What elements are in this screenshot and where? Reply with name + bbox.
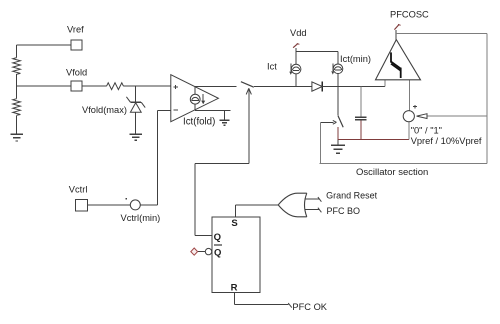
svg-text:PFC BO: PFC BO	[327, 206, 361, 216]
svg-text:Vref: Vref	[67, 25, 84, 35]
svg-text:R: R	[231, 283, 238, 294]
svg-text:Ict(min): Ict(min)	[340, 54, 371, 64]
svg-text:Vfold(max): Vfold(max)	[82, 105, 127, 115]
svg-text:PFCOSC: PFCOSC	[390, 9, 429, 19]
svg-text:Ict: Ict	[267, 62, 277, 72]
svg-text:Oscillator section: Oscillator section	[356, 167, 428, 178]
svg-text:Vctrl(min): Vctrl(min)	[121, 213, 161, 223]
svg-text:Ict(fold): Ict(fold)	[183, 117, 215, 128]
svg-text:Vpref / 10%Vpref: Vpref / 10%Vpref	[411, 136, 482, 146]
svg-text:Vctrl: Vctrl	[69, 184, 88, 194]
svg-text:"0" / "1": "0" / "1"	[411, 125, 442, 135]
svg-text:Vfold: Vfold	[66, 68, 87, 78]
svg-text:Q: Q	[214, 232, 221, 243]
svg-text:Q: Q	[214, 248, 221, 259]
svg-text:Vdd: Vdd	[290, 28, 307, 38]
svg-text:PFC OK: PFC OK	[292, 302, 327, 312]
svg-text:S: S	[231, 218, 237, 229]
svg-text:Grand Reset: Grand Reset	[326, 191, 378, 201]
